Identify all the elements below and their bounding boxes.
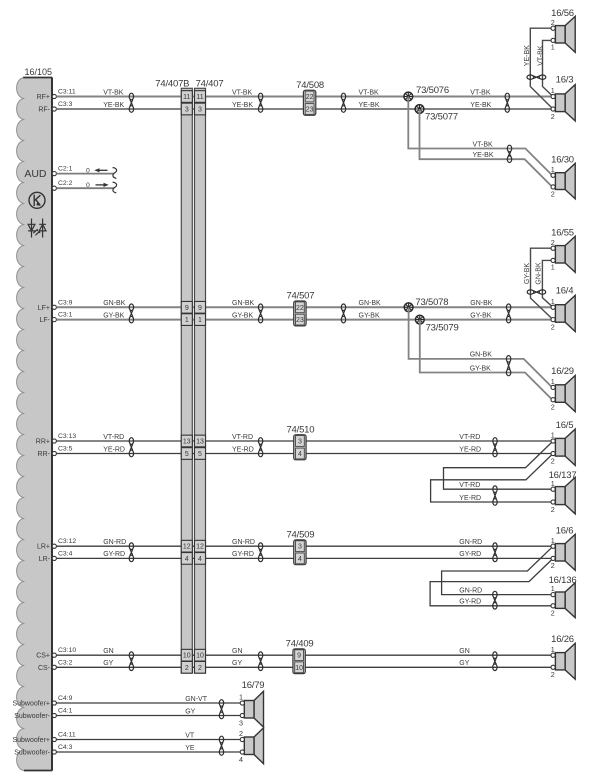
svg-text:CS-: CS- <box>38 665 51 672</box>
labels GY-BK on LF- wire <box>103 312 492 319</box>
svg-text:16/79: 16/79 <box>242 680 265 691</box>
labels YE-BK on RF- wire <box>103 102 491 109</box>
twisted-pair symbol at x=260.6 (RF pair) <box>258 93 262 112</box>
svg-text:GY-BK: GY-BK <box>524 263 531 284</box>
connector 74/407 cell pin 10 <box>195 649 206 661</box>
svg-text:RF+: RF+ <box>37 94 50 101</box>
svg-text:2: 2 <box>551 238 555 247</box>
svg-text:2: 2 <box>551 561 555 570</box>
svg-text:VT-BK: VT-BK <box>103 89 124 96</box>
wire RF+ VT-BK main run <box>56 96 551 98</box>
svg-text:Subwoofer+: Subwoofer+ <box>12 701 50 708</box>
svg-text:16/6: 16/6 <box>556 526 574 537</box>
svg-text:3: 3 <box>239 718 243 727</box>
svg-text:3: 3 <box>185 107 189 114</box>
connector 74/407B cell pin 13 <box>181 435 192 447</box>
svg-text:1: 1 <box>551 165 555 174</box>
signal direction arrow out (AUD C2:2) <box>96 183 109 187</box>
svg-text:2: 2 <box>551 112 555 121</box>
svg-text:C3:2: C3:2 <box>58 659 73 666</box>
twisted-pair symbol at x=508.6 (LF pair) <box>506 304 510 323</box>
splice 73/5076 <box>404 92 413 101</box>
svg-text:YE: YE <box>185 745 195 752</box>
svg-text:4: 4 <box>239 755 243 764</box>
wire break squiggle C2:2 <box>113 182 117 193</box>
svg-text:74/407B: 74/407B <box>155 78 189 89</box>
connector 74/407 cell pin 4 <box>195 553 206 565</box>
svg-text:4: 4 <box>298 556 302 563</box>
svg-text:74/407: 74/407 <box>196 78 224 89</box>
svg-text:C3:9: C3:9 <box>58 299 73 306</box>
ECU symbol diode pair (audio suppression) <box>28 219 46 238</box>
labels VT-RD on RR+ wire <box>103 434 480 441</box>
svg-text:16/29: 16/29 <box>551 366 574 377</box>
svg-text:3: 3 <box>198 107 202 114</box>
svg-text:Subwoofer-: Subwoofer- <box>14 713 50 720</box>
twisted-pair symbol at x=495.0 (RR pair) <box>493 438 497 457</box>
svg-text:VT-RD: VT-RD <box>459 434 480 441</box>
connector 74/509 <box>294 540 306 565</box>
connector 74/407B cell pin 5 <box>181 448 192 460</box>
speaker 16/29 <box>551 376 575 412</box>
connector 74/407 cell pin 3 <box>195 103 206 115</box>
svg-text:73/5077: 73/5077 <box>425 111 458 122</box>
svg-text:4: 4 <box>198 556 202 563</box>
svg-text:GY-BK: GY-BK <box>359 312 380 319</box>
ECU pin name labels <box>12 94 50 757</box>
svg-text:2: 2 <box>551 456 555 465</box>
ECU 16/105 bottom edge <box>24 770 52 772</box>
connector 74/407 cell pin 9 <box>195 301 206 313</box>
twisted-pair symbol at x=260.6 (LR pair) <box>258 543 262 562</box>
svg-text:LF-: LF- <box>40 317 51 324</box>
svg-text:YE-BK: YE-BK <box>232 102 253 109</box>
svg-text:C3:11: C3:11 <box>58 89 76 96</box>
splice 73/5078 <box>404 303 413 312</box>
svg-text:YE-RD: YE-RD <box>232 446 254 453</box>
svg-text:73/5078: 73/5078 <box>415 297 448 308</box>
svg-text:C3:1: C3:1 <box>58 312 73 319</box>
ECU pin sockets (circles at block edge) <box>52 94 56 754</box>
svg-text:11: 11 <box>183 94 190 101</box>
svg-text:C4:1: C4:1 <box>58 708 73 715</box>
svg-text:YE-RD: YE-RD <box>103 446 125 453</box>
svg-text:GY: GY <box>103 660 113 667</box>
svg-text:GY-RD: GY-RD <box>103 551 125 558</box>
svg-text:GY-BK: GY-BK <box>470 365 491 372</box>
svg-text:9: 9 <box>198 305 202 312</box>
svg-text:YE-BK: YE-BK <box>470 102 491 109</box>
twisted-pair symbol (16/137 branch) <box>493 486 497 505</box>
twisted-pair symbol (16/55 branch) <box>527 290 546 294</box>
svg-text:GN-BK: GN-BK <box>359 300 382 307</box>
svg-text:C3:5: C3:5 <box>58 446 73 453</box>
wire YE-RD speaker 16/5 pin 2 to 16/137 pin 2 <box>431 454 553 503</box>
connector 74/407B cell pin 11 <box>181 91 192 103</box>
svg-text:GN-RD: GN-RD <box>459 587 482 594</box>
svg-text:1: 1 <box>551 263 555 272</box>
svg-text:1: 1 <box>551 377 555 386</box>
labels GY on CS- wire <box>103 660 470 667</box>
wire CS- GY main run <box>56 666 551 668</box>
twisted-pair symbol at x=131.4 (RF pair) <box>129 93 133 112</box>
splice 73/5077 <box>415 105 424 114</box>
svg-text:74/509: 74/509 <box>286 530 314 541</box>
connector 74/407B bar <box>181 88 192 673</box>
svg-text:C3:10: C3:10 <box>58 647 76 654</box>
connector 74/407 cell pin 11 <box>195 91 206 103</box>
svg-text:LR+: LR+ <box>37 544 50 551</box>
connector 74/508 <box>303 90 315 115</box>
svg-text:VT-BK: VT-BK <box>232 89 253 96</box>
speaker 16/136 <box>551 583 575 618</box>
svg-text:16/30: 16/30 <box>551 154 574 165</box>
wire subwoofer YE (C4:3) <box>56 751 240 753</box>
svg-text:2: 2 <box>239 729 243 738</box>
svg-text:1: 1 <box>551 43 555 52</box>
ECU 16/105 top edge <box>23 77 52 79</box>
svg-text:YE-BK: YE-BK <box>524 45 531 66</box>
wire VT-RD speaker 16/5 pin 1 to 16/137 pin 1 <box>444 441 554 489</box>
twisted-pair symbol at x=343.5 (RF pair) <box>341 93 345 112</box>
svg-text:1: 1 <box>551 86 555 95</box>
svg-text:10: 10 <box>183 653 191 660</box>
subwoofer speaker 16/79 <box>240 691 263 763</box>
splice 73/5079 <box>415 315 424 324</box>
svg-text:73/5079: 73/5079 <box>426 322 459 333</box>
svg-text:10: 10 <box>295 665 303 672</box>
wire break squiggle C2:1 <box>113 168 117 179</box>
wire AUD C2:1 stub <box>56 173 114 175</box>
svg-text:YE-RD: YE-RD <box>459 446 481 453</box>
svg-text:RR+: RR+ <box>36 439 50 446</box>
svg-text:1: 1 <box>185 317 189 324</box>
svg-text:VT-BK: VT-BK <box>473 141 494 148</box>
svg-text:C3:4: C3:4 <box>58 550 73 557</box>
svg-text:LR-: LR- <box>39 556 51 563</box>
svg-text:16/3: 16/3 <box>556 74 574 85</box>
svg-text:9: 9 <box>185 305 189 312</box>
svg-text:VT-BK: VT-BK <box>359 89 380 96</box>
wire subwoofer GN-VT (C4:9) <box>56 702 240 704</box>
speaker 16/3 (front right door) <box>551 85 575 121</box>
svg-text:C2:1: C2:1 <box>58 165 73 172</box>
connector 74/407B cell pin 2 <box>181 661 192 673</box>
twisted-pair symbol (subwoofer pair 1) <box>219 700 223 719</box>
svg-text:GN: GN <box>232 648 243 655</box>
twisted-pair symbol at x=131.4 (LR pair) <box>129 543 133 562</box>
svg-text:9: 9 <box>297 653 301 660</box>
svg-text:VT-BK: VT-BK <box>470 89 491 96</box>
svg-text:13: 13 <box>196 439 204 446</box>
svg-text:22: 22 <box>306 94 314 101</box>
wire LF- GY-BK main run <box>56 319 551 321</box>
svg-text:C4:9: C4:9 <box>58 695 73 702</box>
svg-text:5: 5 <box>198 451 202 458</box>
wire subwoofer VT (C4:11) <box>56 739 240 741</box>
svg-text:Subwoofer-: Subwoofer- <box>14 750 50 757</box>
svg-text:1: 1 <box>551 479 555 488</box>
wire CS+ GN main run <box>56 654 551 656</box>
twisted-pair symbol at x=260.6 (CS pair) <box>258 652 262 671</box>
connector 74/407 bar <box>195 88 206 673</box>
connector 74/407B cell pin 3 <box>181 103 192 115</box>
labels GN on CS+ wire <box>103 648 470 655</box>
svg-text:12: 12 <box>196 544 204 551</box>
svg-text:YE-BK: YE-BK <box>103 102 124 109</box>
twisted-pair symbol at x=343.5 (LF pair) <box>341 304 345 323</box>
svg-text:GN-VT: GN-VT <box>185 696 208 703</box>
svg-text:16/4: 16/4 <box>556 285 574 296</box>
connector 74/407 cell pin 2 <box>195 661 206 673</box>
svg-text:VT-RD: VT-RD <box>459 482 480 489</box>
svg-text:GY-RD: GY-RD <box>459 551 481 558</box>
wire AUD C2:2 stub <box>56 187 114 189</box>
connector 74/407B cell pin 1 <box>181 314 192 326</box>
svg-text:1: 1 <box>551 645 555 654</box>
svg-text:RR-: RR- <box>38 451 51 458</box>
svg-text:0: 0 <box>86 182 90 189</box>
labels YE-RD on RR- wire <box>103 446 481 453</box>
svg-text:GN-BK: GN-BK <box>470 352 493 359</box>
svg-text:4: 4 <box>185 556 189 563</box>
svg-text:1: 1 <box>551 297 555 306</box>
ECU 16/105 body (audio unit, wavy-edge block) <box>17 78 52 771</box>
svg-text:GN-BK: GN-BK <box>536 262 543 285</box>
signal direction arrow in (AUD C2:1) <box>94 168 107 172</box>
connector 74/409 <box>293 649 305 674</box>
svg-text:1: 1 <box>239 693 243 702</box>
svg-text:2: 2 <box>551 18 555 27</box>
svg-text:YE-BK: YE-BK <box>473 152 494 159</box>
svg-text:10: 10 <box>196 653 204 660</box>
svg-text:74/510: 74/510 <box>286 424 314 435</box>
svg-text:YE-RD: YE-RD <box>459 495 481 502</box>
connector 74/407 cell pin 5 <box>195 448 206 460</box>
connector 74/407 cell pin 1 <box>195 314 206 326</box>
svg-text:2: 2 <box>198 665 202 672</box>
svg-text:4: 4 <box>298 451 302 458</box>
svg-text:2: 2 <box>551 609 555 618</box>
svg-text:74/507: 74/507 <box>286 291 314 302</box>
svg-text:16/26: 16/26 <box>551 634 574 645</box>
labels GN-BK on LF+ wire <box>103 300 493 307</box>
svg-text:GY-RD: GY-RD <box>232 551 254 558</box>
svg-text:11: 11 <box>196 94 203 101</box>
speaker 16/30 <box>551 163 575 198</box>
svg-text:Subwoofer+: Subwoofer+ <box>12 737 50 744</box>
twisted-pair symbol at x=260.6 (RR pair) <box>258 438 262 457</box>
connector 74/507 <box>294 301 306 326</box>
svg-text:1: 1 <box>551 536 555 545</box>
twisted-pair symbol at x=131.4 (CS pair) <box>129 652 133 671</box>
twisted-pair symbol (16/29 branch) <box>506 356 510 376</box>
svg-text:YE-BK: YE-BK <box>359 102 380 109</box>
svg-text:GN-RD: GN-RD <box>103 539 126 546</box>
svg-text:LF+: LF+ <box>38 305 50 312</box>
svg-text:23: 23 <box>296 317 304 324</box>
svg-text:C3:12: C3:12 <box>58 538 76 545</box>
svg-text:RF-: RF- <box>38 107 50 114</box>
twisted-pair symbol at x=131.4 (LF pair) <box>129 304 133 323</box>
ECU symbol K in circle <box>29 192 45 208</box>
svg-text:2: 2 <box>551 505 555 514</box>
svg-text:3: 3 <box>298 544 302 551</box>
labels VT-BK on RF+ wire <box>103 89 491 96</box>
wire GY-BK splice 73/5079 to speaker 16/29 pin 2 <box>420 320 552 400</box>
speaker 16/137 <box>551 477 575 514</box>
svg-text:2: 2 <box>551 322 555 331</box>
svg-text:GY: GY <box>459 660 469 667</box>
svg-text:AUD: AUD <box>24 168 47 180</box>
svg-text:GY: GY <box>185 708 195 715</box>
twisted-pair symbol at x=494.9 (CS pair) <box>493 652 497 671</box>
connector 74/407B cell pin 12 <box>181 540 192 552</box>
connector 74/407 cell pin 13 <box>195 435 206 447</box>
svg-text:C4:11: C4:11 <box>58 732 76 739</box>
wire RR+ VT-RD main run <box>56 440 551 442</box>
svg-text:74/409: 74/409 <box>286 639 314 650</box>
svg-text:16/5: 16/5 <box>556 420 574 431</box>
connector 74/407B cell pin 9 <box>181 301 192 313</box>
svg-text:13: 13 <box>183 439 191 446</box>
svg-text:22: 22 <box>296 305 304 312</box>
svg-text:GY-BK: GY-BK <box>470 312 491 319</box>
speaker 16/55 (tweeter) <box>551 236 575 272</box>
svg-text:0: 0 <box>86 168 90 175</box>
svg-text:2: 2 <box>551 190 555 199</box>
twisted-pair symbol (subwoofer pair 2) <box>219 736 223 755</box>
svg-text:1: 1 <box>551 584 555 593</box>
speaker 16/5 (rear right) <box>551 429 575 465</box>
wire RR- YE-RD main run <box>56 453 551 455</box>
svg-text:16/105: 16/105 <box>25 67 53 77</box>
connector 74/407 cell pin 12 <box>195 540 206 552</box>
wire YE-BK splice 73/5077 to speaker 16/30 pin 2 <box>420 109 552 187</box>
svg-text:2: 2 <box>551 670 555 679</box>
svg-text:C3:3: C3:3 <box>58 101 73 108</box>
wire RF- YE-BK main run <box>56 108 551 110</box>
svg-text:C4:3: C4:3 <box>58 744 73 751</box>
wire GN-RD speaker 16/6 pin 1 to 16/136 pin 1 <box>442 546 553 594</box>
svg-text:VT-RD: VT-RD <box>103 434 124 441</box>
twisted-pair symbol at x=131.4 (RR pair) <box>129 438 133 457</box>
svg-text:GN-RD: GN-RD <box>232 539 255 546</box>
wire GY-BK speaker 16/55 pin 2 branch <box>531 248 554 319</box>
twisted-pair symbol at x=260.6 (LF pair) <box>258 304 262 323</box>
svg-text:1: 1 <box>198 317 202 324</box>
svg-text:GN-BK: GN-BK <box>232 300 255 307</box>
speaker 16/6 (rear left) <box>551 534 575 570</box>
wire VT-BK speaker 16/56 pin 1 branch <box>543 40 554 96</box>
speaker 16/26 (centre) <box>551 643 575 679</box>
svg-text:GN: GN <box>103 648 114 655</box>
svg-text:VT: VT <box>185 732 195 739</box>
twisted-pair symbol (16/30 branch) <box>507 145 511 162</box>
svg-text:74/508: 74/508 <box>296 80 324 91</box>
svg-text:CS+: CS+ <box>36 653 50 660</box>
svg-text:2: 2 <box>551 403 555 412</box>
twisted-pair symbol (16/56 branch) <box>527 75 546 79</box>
svg-text:5: 5 <box>185 451 189 458</box>
svg-text:GY-BK: GY-BK <box>232 312 253 319</box>
svg-text:GY: GY <box>232 660 242 667</box>
labels GY-RD on LR- wire <box>103 551 481 558</box>
svg-text:C3:13: C3:13 <box>58 433 76 440</box>
svg-text:1: 1 <box>551 431 555 440</box>
svg-text:GN-BK: GN-BK <box>103 300 126 307</box>
connector 74/407B cell pin 10 <box>181 649 192 661</box>
svg-text:2: 2 <box>185 665 189 672</box>
svg-text:VT-RD: VT-RD <box>232 434 253 441</box>
twisted-pair symbol (16/136 branch) <box>493 591 497 609</box>
svg-text:VT-BK: VT-BK <box>537 45 544 66</box>
ECU 16/105 right edge <box>51 78 53 771</box>
speaker 16/4 (front left door) <box>551 295 575 331</box>
wire LF+ GN-BK main run <box>56 306 551 308</box>
svg-text:3: 3 <box>298 439 302 446</box>
wire LR- GY-RD main run <box>56 557 551 559</box>
labels GN-RD on LR+ wire <box>103 539 482 546</box>
svg-text:23: 23 <box>306 107 314 114</box>
wire VT-BK splice 73/5076 to speaker 16/30 pin 1 <box>408 97 552 176</box>
twisted-pair symbol at x=495.0 (LR pair) <box>493 543 497 562</box>
connector 74/510 <box>294 435 306 460</box>
wire YE-BK speaker 16/56 pin 2 branch <box>530 28 553 109</box>
speaker 16/56 (tweeter) <box>551 16 575 52</box>
wire subwoofer GY (C4:1) <box>56 715 240 717</box>
wire GN-BK speaker 16/55 pin 1 branch <box>542 260 553 307</box>
wire GY-RD speaker 16/6 pin 2 to 16/136 pin 2 <box>430 558 553 605</box>
connector 74/407B cell pin 4 <box>181 553 192 565</box>
svg-text:GN-RD: GN-RD <box>459 539 482 546</box>
svg-text:GN-BK: GN-BK <box>470 300 493 307</box>
svg-text:GY-RD: GY-RD <box>459 599 481 606</box>
svg-text:73/5076: 73/5076 <box>416 85 449 96</box>
twisted-pair symbol at x=507.3 (RF pair) <box>505 93 509 112</box>
wire LR+ GN-RD main run <box>56 545 551 547</box>
svg-text:GN: GN <box>459 648 470 655</box>
svg-text:GY-BK: GY-BK <box>103 312 124 319</box>
wire GN-BK splice 73/5078 to speaker 16/29 pin 1 <box>409 307 552 387</box>
svg-text:12: 12 <box>183 544 191 551</box>
svg-text:C2:2: C2:2 <box>58 180 73 187</box>
